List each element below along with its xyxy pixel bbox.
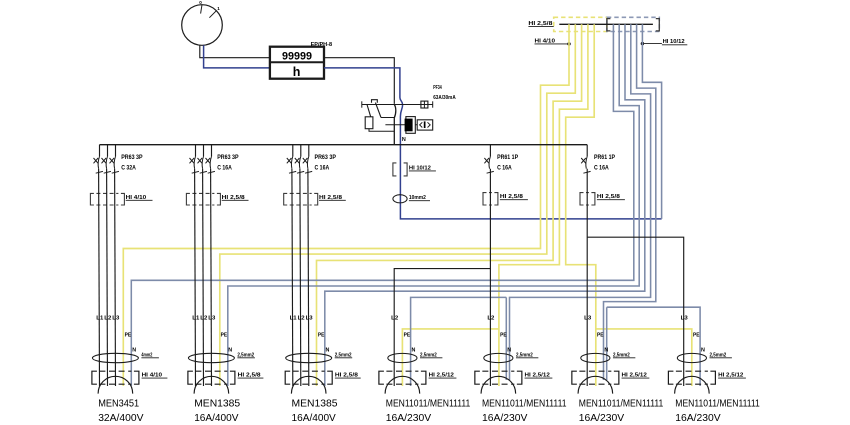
svg-text:MEN11011/MEN11111: MEN11011/MEN11111	[675, 398, 760, 409]
meter tag label	[311, 42, 333, 48]
PE branch wire to outlet 7	[596, 329, 692, 386]
label 4mm2 branch 1	[141, 352, 159, 358]
RCD contact B link wire	[381, 117, 394, 119]
label HI 2,5/8 mid 2	[222, 195, 249, 201]
terminal bracket Q2	[186, 193, 220, 205]
cable marker 2,5mm2 branch 5	[484, 353, 513, 362]
dial label 0	[199, 0, 202, 5]
svg-text:MEN11011/MEN11111: MEN11011/MEN11111	[482, 398, 567, 409]
label MEN11011/MEN11111 outlet 5	[482, 398, 567, 409]
label C 16A Q5	[497, 166, 512, 172]
label 2,5mm2 branch 6	[613, 352, 635, 358]
svg-text:63A/30mA: 63A/30mA	[433, 95, 456, 101]
wire L3 to outlets 6+7	[587, 169, 684, 386]
N branch wire to outlet 7	[607, 307, 700, 386]
label MEN11011/MEN11111 outlet 4	[386, 398, 471, 409]
RCD label PF34	[433, 85, 442, 91]
label PR61 1P Q6	[594, 155, 615, 161]
label 10mm2	[409, 195, 430, 201]
svg-text:16A/400V: 16A/400V	[194, 413, 238, 424]
RCD test wire	[385, 124, 417, 126]
label C 16A Q3	[315, 166, 330, 172]
PE branch wire to outlet 4	[402, 329, 499, 386]
svg-text:L1: L1	[192, 315, 199, 321]
svg-text:L1: L1	[290, 315, 297, 321]
svg-text:L2: L2	[487, 315, 494, 321]
label HI 4/10 mid 1	[126, 195, 153, 201]
RCD F1 main line	[362, 101, 433, 107]
svg-text:N: N	[228, 348, 232, 354]
label HI 4/10 strip	[535, 39, 570, 45]
RCD main blade	[394, 105, 396, 145]
energy meter box P1	[270, 47, 324, 79]
svg-text:16A/230V: 16A/230V	[482, 413, 527, 424]
svg-text:L2: L2	[391, 315, 398, 321]
label HI 10/12 strip	[642, 39, 687, 45]
label HI 2,5/8 Q5	[500, 194, 528, 200]
label 16A/230V outlet 4	[386, 413, 431, 424]
wire L1 branch 3	[291, 169, 294, 386]
svg-text:N: N	[604, 348, 608, 354]
main distribution bus	[100, 144, 588, 146]
label PE branch 2	[221, 333, 228, 339]
terminal bracket HI 10/12 feeder	[393, 163, 407, 176]
label 32A/400V outlet 1	[98, 413, 143, 424]
wire L2 branch 1	[106, 169, 109, 386]
terminal bracket Q5	[483, 193, 498, 205]
terminal bracket Q1	[90, 193, 124, 205]
label 2,5mm2 branch 7	[710, 352, 732, 358]
cable marker 2,5mm2 branch 2	[188, 353, 234, 362]
label PE branch 5	[500, 333, 507, 339]
svg-text:PR63 3P: PR63 3P	[121, 155, 142, 161]
socket outlet 7 arc	[675, 376, 710, 393]
svg-text:C 16A: C 16A	[315, 166, 330, 172]
svg-text:h: h	[293, 65, 301, 79]
svg-text:C 32A: C 32A	[121, 166, 136, 172]
PE wire to outlets 4+5	[499, 24, 588, 386]
dial label 1	[217, 6, 220, 11]
label HI 2,5/12 outlet 7	[718, 373, 746, 379]
svg-text:L3: L3	[208, 315, 215, 321]
svg-text:PR61 1P: PR61 1P	[497, 155, 518, 161]
terminal bracket outlet 7	[668, 371, 715, 384]
svg-text:L3: L3	[306, 315, 313, 321]
label HI 2,5/8 outlet 3	[335, 373, 361, 379]
socket outlet 4 arc	[385, 376, 420, 393]
terminal bracket Q6	[580, 193, 595, 205]
RCD pole contact A	[367, 105, 371, 117]
RCD test resistor	[405, 117, 416, 134]
label N branch 1	[132, 348, 136, 354]
label HI 10/12 feeder	[409, 165, 436, 171]
svg-text:N: N	[402, 137, 406, 143]
junction dot PE feed	[567, 42, 570, 45]
svg-text:MEN1385: MEN1385	[194, 398, 240, 409]
label MEN11011/MEN11111 outlet 7	[675, 398, 760, 409]
meter register 99999	[282, 51, 312, 63]
wire L3 branch 1	[114, 169, 117, 386]
cable marker 4mm2 branch 1	[92, 353, 138, 362]
svg-text:L2: L2	[200, 315, 207, 321]
label HI 2,5/8 strip	[528, 21, 553, 27]
PE wire to outlet 3	[317, 24, 582, 386]
terminal bracket outlet 5	[475, 371, 522, 384]
circuit breaker Q6 PR61 1P	[581, 145, 590, 174]
socket outlet 2 arc	[194, 376, 229, 393]
terminal strip divider bracket	[607, 19, 659, 31]
label N branch 4	[412, 348, 416, 354]
svg-text:N: N	[507, 348, 511, 354]
svg-text:32A/400V: 32A/400V	[98, 413, 143, 424]
label C 16A Q6	[594, 166, 609, 172]
svg-text:C 16A: C 16A	[497, 166, 512, 172]
terminal bracket outlet 6	[572, 371, 619, 384]
N wire to outlet 1	[131, 24, 634, 386]
RCD label 63A/30mA	[433, 95, 456, 101]
label N branch 3	[326, 348, 330, 354]
label PR63 3P Q1	[121, 155, 142, 161]
wire L1 branch 1	[98, 169, 101, 386]
label HI 2,5/8 mid 3	[319, 195, 346, 201]
svg-text:C 16A: C 16A	[217, 166, 232, 172]
svg-text:L2: L2	[298, 315, 305, 321]
circuit breaker Q2 PR63 3P	[190, 145, 215, 174]
label 16A/230V outlet 7	[675, 413, 720, 424]
svg-text:MEN3451: MEN3451	[98, 398, 139, 409]
label HI 2,5/12 outlet 5	[525, 373, 553, 379]
label PE branch 6	[597, 333, 604, 339]
svg-text:MEN11011/MEN11111: MEN11011/MEN11111	[579, 398, 664, 409]
svg-text:1: 1	[217, 6, 220, 11]
terminal strip N (dashed blue box)	[607, 17, 659, 31]
terminal bracket outlet 1	[92, 371, 139, 384]
label MEN3451	[98, 398, 139, 409]
label L1L2L3 branch 3	[290, 315, 313, 321]
svg-text:MEN1385: MEN1385	[292, 398, 338, 409]
RCD coil return wire	[369, 129, 394, 132]
svg-text:L1: L1	[96, 315, 103, 321]
terminal bracket outlet 2	[188, 371, 235, 384]
svg-text:PE: PE	[693, 333, 700, 339]
label PE branch 7	[693, 333, 700, 339]
junction dot N feed	[641, 42, 644, 45]
svg-text:16A/230V: 16A/230V	[579, 413, 624, 424]
wire meter to RCD (phase)	[324, 58, 394, 104]
cable marker 2,5mm2 branch 3	[286, 353, 332, 362]
RCD pole contact B	[375, 103, 381, 118]
label PE branch 1	[125, 333, 132, 339]
label PR63 3P Q2	[217, 155, 238, 161]
label MEN1385	[194, 398, 240, 409]
label 2,5mm2 branch 2	[237, 352, 255, 358]
label HI 2,5/12 outlet 6	[622, 373, 650, 379]
circuit breaker Q3 PR63 3P	[287, 145, 312, 174]
label HI 4/10 outlet 1	[142, 373, 168, 379]
wire L3 branch 3	[307, 169, 310, 386]
label PR63 3P Q3	[315, 155, 336, 161]
wire meter to RCD (neutral)	[324, 68, 662, 219]
svg-text:N: N	[412, 348, 416, 354]
cable marker 2,5mm2 branch 7	[677, 353, 706, 362]
label N branch 6	[604, 348, 608, 354]
PE wire to outlet 1	[123, 24, 569, 386]
svg-text:PE: PE	[318, 333, 325, 339]
wire L2 branch 3	[299, 169, 302, 386]
terminal strip PE (dashed yellow box)	[554, 17, 607, 31]
label HI 2,5/12 outlet 4	[429, 373, 457, 379]
wire L2 branch 2	[202, 169, 205, 386]
RCD trip coil	[365, 117, 373, 129]
svg-text:L2: L2	[104, 315, 111, 321]
socket outlet 1 arc	[98, 376, 133, 393]
svg-text:HI 10/12: HI 10/12	[409, 165, 431, 171]
wire L2 to outlets 4+5	[394, 169, 490, 386]
N wire to outlet 3	[325, 24, 645, 386]
label 16A/230V outlet 6	[579, 413, 624, 424]
svg-text:99999: 99999	[282, 51, 312, 63]
RCD current transformer	[421, 101, 428, 108]
label N branch 2	[228, 348, 232, 354]
svg-text:N: N	[701, 348, 705, 354]
svg-text:N: N	[326, 348, 330, 354]
svg-text:16A/400V: 16A/400V	[292, 413, 336, 424]
label MEN1385	[292, 398, 338, 409]
RCD test button	[417, 120, 433, 130]
svg-text:L3: L3	[112, 315, 119, 321]
PE wire to outlet 2	[220, 24, 576, 386]
svg-text:PE: PE	[500, 333, 507, 339]
clock dial symbol	[182, 5, 223, 46]
svg-text:L3: L3	[584, 315, 591, 321]
label N branch 5	[507, 348, 511, 354]
svg-text:N: N	[132, 348, 136, 354]
svg-text:16A/230V: 16A/230V	[386, 413, 431, 424]
N branch wire to outlet 4	[411, 297, 507, 386]
terminal bracket outlet 3	[285, 371, 332, 384]
svg-text:PE: PE	[597, 333, 604, 339]
svg-text:PE: PE	[221, 333, 228, 339]
node N label	[402, 137, 406, 143]
label PE branch 3	[318, 333, 325, 339]
label L1L2L3 branch 2	[192, 315, 215, 321]
label 16A/400V outlet 3	[292, 413, 336, 424]
socket outlet 3 arc	[291, 376, 326, 393]
svg-text:PE: PE	[125, 333, 132, 339]
N riser from RCD	[642, 24, 661, 219]
N wire to outlets 4+5	[510, 24, 651, 380]
socket outlet 5 arc	[481, 376, 516, 393]
svg-text:16A/230V: 16A/230V	[675, 413, 720, 424]
terminal bracket outlet 4	[379, 371, 426, 384]
socket outlet 6 arc	[578, 376, 613, 393]
label PR61 1P Q5	[497, 155, 518, 161]
circuit breaker Q1 PR63 3P	[94, 145, 119, 174]
terminal strip bus bar	[559, 23, 653, 25]
svg-text:PR63 3P: PR63 3P	[217, 155, 238, 161]
PE wire to outlets 6+7	[566, 24, 596, 386]
label L3 branch 6	[584, 315, 591, 321]
circuit breaker Q5 PR61 1P	[484, 145, 493, 174]
svg-text:L3: L3	[681, 315, 688, 321]
cable marker 2,5mm2 branch 6	[581, 353, 610, 362]
label L2 branch 4	[391, 315, 398, 321]
label 2,5mm2 branch 3	[335, 352, 353, 358]
cable marker 10mm2	[393, 195, 407, 203]
label L2 branch 5	[487, 315, 494, 321]
meter unit h	[293, 65, 301, 79]
label 16A/400V outlet 2	[194, 413, 238, 424]
svg-text:0: 0	[199, 0, 202, 5]
svg-text:EP/PH-8: EP/PH-8	[311, 42, 333, 48]
label N branch 7	[701, 348, 705, 354]
svg-text:MEN11011/MEN11111: MEN11011/MEN11111	[386, 398, 471, 409]
label HI 2,5/8 Q6	[597, 194, 625, 200]
RCD linkage bracket	[372, 100, 378, 103]
wire L3 branch 2	[210, 169, 213, 386]
wire clock to meter (phase)	[200, 45, 270, 57]
label HI 2,5/8 outlet 2	[238, 373, 264, 379]
label 2,5mm2 branch 5	[516, 352, 538, 358]
N wire to outlets 6+7	[604, 24, 656, 380]
label MEN11011/MEN11111 outlet 6	[579, 398, 664, 409]
label 16A/230V outlet 5	[482, 413, 527, 424]
label 2,5mm2 branch 4	[420, 352, 442, 358]
wire clock to meter (neutral)	[204, 45, 270, 68]
terminal bracket Q3	[284, 193, 318, 205]
label C 32A Q1	[121, 166, 136, 172]
svg-text:C 16A: C 16A	[594, 166, 609, 172]
label C 16A Q2	[217, 166, 232, 172]
svg-text:PF34: PF34	[433, 85, 442, 91]
svg-text:PR63 3P: PR63 3P	[315, 155, 336, 161]
svg-text:HI 10/12: HI 10/12	[663, 39, 685, 45]
cable marker 2,5mm2 branch 4	[388, 353, 417, 362]
label PE branch 4	[404, 333, 411, 339]
svg-text:PR61 1P: PR61 1P	[594, 155, 615, 161]
N wire to outlet 2	[228, 24, 639, 386]
svg-text:PE: PE	[404, 333, 411, 339]
wire L1 branch 2	[194, 169, 197, 386]
label L3 branch 7	[681, 315, 688, 321]
label L1L2L3 branch 1	[96, 315, 119, 321]
